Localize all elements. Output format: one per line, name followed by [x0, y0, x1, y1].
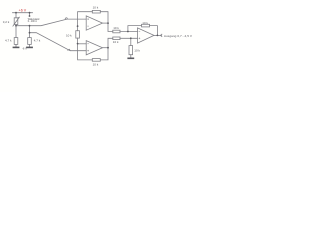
- svg-text:4,7 k: 4,7 k: [5, 38, 12, 42]
- wire node A to A1: [16, 19, 86, 26]
- wire left branch top: [15, 13, 17, 18]
- svg-text:10 k: 10 k: [134, 49, 140, 53]
- junction dots: [15, 12, 158, 49]
- svg-text:10 k: 10 k: [93, 63, 99, 67]
- wire left node: [15, 25, 17, 38]
- variable resistor 3,2 k body: [14, 18, 18, 25]
- wire right branch middle: [29, 26, 31, 38]
- wire to ground right: [29, 44, 31, 46]
- svg-text:10 k: 10 k: [93, 6, 99, 10]
- wire to ground left: [15, 44, 17, 46]
- A2 output wire: [103, 47, 109, 49]
- A1 feedback wire up: [78, 12, 93, 26]
- svg-text:10 k: 10 k: [142, 21, 148, 25]
- A2 feedback wire right: [100, 48, 108, 60]
- op-amp A1: [86, 16, 102, 30]
- wire right branch top: [29, 13, 31, 16]
- svg-text:10 k: 10 k: [66, 33, 72, 37]
- A2 minus input wire: [78, 43, 87, 45]
- A1 output wire: [103, 22, 109, 24]
- A1 feedback wire right: [100, 12, 108, 23]
- wire A2 out up to R: [108, 38, 113, 47]
- op-amp A2: [86, 41, 102, 55]
- op-amp polarity marks: [87, 18, 140, 51]
- A3 output wire: [154, 34, 162, 36]
- ground right: [26, 46, 33, 48]
- svg-text:-6 V: -6 V: [22, 47, 27, 51]
- resistor 10 k A1 feedback: [92, 10, 100, 13]
- ground bars: [13, 47, 135, 58]
- gain resistor 10 k middle: [77, 26, 79, 31]
- variable resistor arrow: [13, 17, 19, 26]
- output terminal: [160, 34, 162, 36]
- A3 feedback loop: [128, 26, 142, 32]
- svg-text:Ausgang 0,7...4,5 V: Ausgang 0,7...4,5 V: [164, 34, 193, 38]
- labels: [3, 6, 193, 67]
- svg-text:+6 V: +6 V: [19, 9, 27, 13]
- ground left: [13, 46, 20, 48]
- resistor 10 k to A3 plus: [113, 37, 120, 40]
- resistor 10 k A3 feedback: [142, 24, 150, 27]
- op-amp A3: [138, 28, 155, 43]
- wire A1 out down to R: [108, 23, 113, 31]
- wire kink artifact: [68, 49, 70, 50]
- wire kink artifact top: [65, 18, 67, 19]
- wire node B to A2: [30, 33, 87, 51]
- supply rail +6V: [13, 12, 33, 14]
- resistor 10 k A2 feedback: [92, 59, 100, 62]
- resistor 4,7 k left: [14, 38, 18, 45]
- A2 feedback wire down: [78, 44, 93, 60]
- resistor 4,7 k right: [28, 38, 32, 45]
- wire R to A3 plus: [120, 37, 138, 39]
- resistor 10 k to ground at A3 plus: [130, 38, 132, 45]
- ground A3: [127, 57, 134, 59]
- svg-text:0...100 Ω: 0...100 Ω: [28, 20, 38, 23]
- svg-text:3,2 k: 3,2 k: [3, 20, 10, 24]
- svg-text:10 k: 10 k: [113, 26, 119, 30]
- wire R to A3 minus: [120, 31, 138, 33]
- svg-text:4,7 k: 4,7 k: [34, 38, 41, 42]
- resistor 10 k to A3 minus: [113, 30, 120, 33]
- svg-text:10 k: 10 k: [113, 40, 119, 44]
